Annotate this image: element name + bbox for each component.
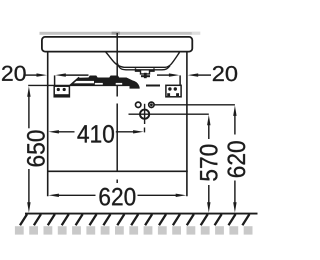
ground hatching — [20, 214, 249, 225]
drain flange — [136, 68, 155, 74]
dim 620 bottom — [99, 188, 135, 206]
dim 20 right line and arrows — [157, 74, 211, 76]
cabinet inner right edge — [179, 75, 181, 85]
washbasin face — [42, 37, 192, 52]
dim 410 — [77, 125, 113, 143]
center line — [116, 33, 118, 183]
siphon hump — [130, 81, 140, 89]
bowl outline — [106, 52, 180, 67]
wall strip gray bar — [40, 32, 201, 35]
cabinet left side — [47, 52, 49, 196]
left fixing bracket — [54, 86, 69, 97]
dim 20 left line and arrows — [25, 74, 89, 76]
drain crosshair symbol — [129, 104, 209, 124]
dim 620 right — [228, 141, 246, 177]
dim 570 right — [200, 145, 218, 181]
ground gray blocks — [15, 226, 253, 234]
right fixing bracket — [166, 85, 181, 97]
dim 20 right text — [213, 66, 237, 81]
drain extension line — [144, 128, 146, 133]
cabinet inner left edge — [54, 75, 56, 85]
cabinet top line — [28, 84, 160, 86]
ground line — [25, 213, 258, 215]
bowl underside line — [117, 63, 170, 70]
cabinet bottom — [48, 170, 188, 172]
overflow hole circles — [136, 102, 155, 107]
dim 650 left — [27, 130, 45, 166]
dim 20 left text — [2, 66, 26, 81]
cabinet right side — [186, 52, 188, 196]
drain tee — [141, 73, 150, 78]
left bracket blade — [70, 76, 134, 86]
overflow reference line — [154, 104, 235, 106]
